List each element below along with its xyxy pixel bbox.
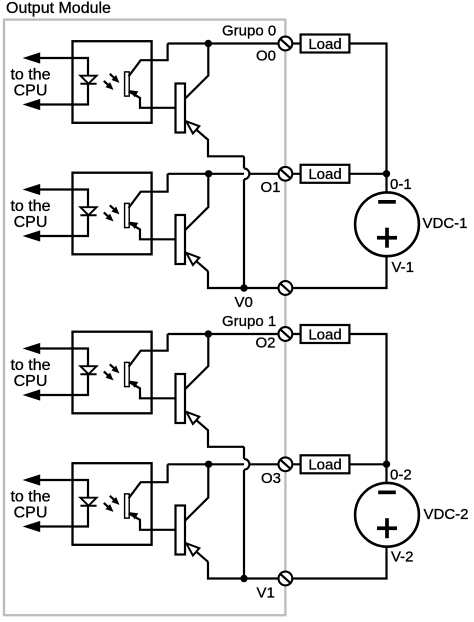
phototransistor Q1a emitter [129, 91, 177, 108]
junction [205, 170, 212, 177]
terminal O2 [279, 327, 293, 341]
phototransistor Q4a emitter arrow [129, 512, 138, 519]
module border (PLC output module outline) [4, 20, 285, 616]
light arrows (D2 to phototransistor) [110, 205, 117, 212]
transistor Q3b emitter arrow (PNP) [186, 412, 199, 424]
wire [87, 84, 89, 106]
svg-text:Grupo 0: Grupo 0 [222, 23, 276, 40]
svg-text:Output Module: Output Module [6, 0, 111, 17]
LED D1 [80, 76, 96, 84]
wire [39, 188, 89, 190]
terminal O3 [279, 457, 293, 471]
phototransistor Q1a base bar [125, 72, 130, 96]
phototransistor Q1a emitter arrow [129, 90, 138, 97]
svg-text:VDC-1: VDC-1 [423, 215, 468, 232]
wire [87, 215, 89, 237]
wire (emitter to common) [207, 271, 209, 289]
phototransistor Q2a collector [129, 192, 169, 208]
svg-text:to the: to the [10, 67, 50, 84]
wire (emitter drop upper) [243, 156, 245, 168]
node 0-1 [383, 170, 390, 177]
junction [205, 330, 212, 337]
wire [39, 394, 89, 396]
svg-text:Grupo 1: Grupo 1 [222, 313, 276, 330]
phototransistor Q3a emitter arrow [129, 381, 138, 388]
svg-text:to the: to the [10, 489, 50, 506]
load L3 box [301, 325, 350, 343]
transistor Q2b emitter wire [187, 253, 208, 271]
svg-text:V-2: V-2 [391, 549, 414, 566]
arrow to CPU (U4 cathode side) [23, 521, 41, 532]
transistor Q2b collector [185, 174, 209, 231]
svg-text:V1: V1 [257, 585, 275, 602]
svg-text:Load: Load [308, 36, 341, 53]
phototransistor Q1a collector [129, 60, 169, 76]
wire hop over O3 line [244, 459, 249, 470]
svg-text:CPU: CPU [14, 504, 48, 521]
svg-text:CPU: CPU [14, 214, 48, 231]
phototransistor Q2a base bar [125, 203, 130, 227]
transistor Q4b base bar [176, 506, 186, 555]
arrow to CPU (U1 anode side) [23, 52, 41, 63]
wire [39, 525, 89, 527]
wire hop over O1 line [244, 168, 249, 179]
wire [87, 189, 89, 209]
wire (emitter drop upper) [243, 447, 245, 459]
LED D4 [80, 498, 96, 506]
arrow to CPU (U4 anode side) [23, 474, 41, 485]
transistor Q4b collector [185, 464, 209, 521]
wire (bus) [385, 334, 387, 464]
wire [349, 173, 387, 175]
light arrows (D4 to phototransistor) [110, 496, 117, 503]
transistor Q4b emitter wire [187, 544, 208, 562]
wire (bus) [385, 44, 387, 174]
phototransistor Q3a base bar [125, 362, 130, 386]
transistor Q2b emitter arrow (PNP) [186, 253, 199, 265]
wire [349, 42, 387, 44]
transistor Q3b collector [185, 334, 209, 390]
wire [39, 235, 89, 237]
junction [240, 575, 247, 582]
source VDC-2 [355, 483, 419, 547]
phototransistor Q2a emitter [129, 223, 177, 240]
svg-text:O3: O3 [261, 470, 281, 487]
light arrows (D1 to phototransistor) [110, 74, 117, 81]
svg-text:O1: O1 [261, 179, 281, 196]
svg-text:O0: O0 [256, 48, 276, 65]
wire (collector riser) [167, 464, 169, 482]
wire [39, 347, 89, 349]
terminal O0 [279, 37, 293, 51]
svg-text:CPU: CPU [14, 82, 48, 99]
wire [87, 57, 89, 77]
node O0 line [168, 42, 302, 44]
phototransistor Q4a collector [129, 482, 169, 498]
svg-text:O2: O2 [256, 335, 276, 352]
wire [39, 479, 89, 481]
node V1 line [207, 577, 388, 579]
wire [349, 333, 387, 335]
junction [205, 461, 212, 468]
phototransistor Q4a emitter [129, 513, 177, 530]
arrow to CPU (U3 anode side) [23, 343, 41, 354]
svg-text:0-2: 0-2 [390, 467, 412, 484]
svg-text:V-1: V-1 [392, 259, 415, 276]
svg-text:Load: Load [308, 326, 341, 343]
wire (emitter drop lower) [243, 470, 245, 580]
source VDC-1 [355, 192, 419, 256]
svg-text:V0: V0 [235, 294, 253, 311]
svg-text:to the: to the [10, 198, 50, 215]
wire (collector riser) [167, 334, 169, 351]
phototransistor Q2a emitter arrow [129, 222, 138, 229]
transistor Q3b base bar [176, 374, 186, 423]
transistor Q1b collector [185, 44, 209, 100]
phototransistor Q3a emitter [129, 382, 177, 399]
junction [205, 40, 212, 47]
node V0 line [207, 287, 388, 289]
LED D2 [80, 207, 96, 215]
arrow to CPU (U2 cathode side) [23, 230, 41, 241]
arrow to CPU (U1 cathode side) [23, 99, 41, 110]
transistor Q3b emitter wire [187, 412, 244, 447]
light arrows (D3 to phototransistor) [110, 364, 117, 371]
junction [240, 284, 247, 291]
node 0-2 [383, 461, 390, 468]
node O2 line [168, 333, 302, 335]
svg-text:Load: Load [308, 166, 341, 183]
arrow to CPU (U3 cathode side) [23, 389, 41, 400]
load L1 box [301, 35, 350, 53]
wire (collector riser) [167, 174, 169, 192]
phototransistor Q3a collector [129, 351, 169, 367]
wire [385, 256, 387, 290]
svg-text:Load: Load [308, 457, 341, 474]
transistor Q1b emitter wire [187, 122, 244, 157]
wire [385, 464, 387, 483]
node O1 line [168, 173, 302, 175]
transistor Q1b base bar [176, 84, 186, 133]
wire [385, 174, 387, 193]
wire [39, 103, 89, 105]
terminal V1 [279, 572, 293, 586]
svg-text:CPU: CPU [14, 373, 48, 390]
optocoupler U2 box [73, 173, 152, 255]
wire [349, 463, 387, 465]
svg-text:0-1: 0-1 [390, 176, 412, 193]
wire [385, 546, 387, 580]
transistor Q2b base bar [176, 215, 186, 264]
wire [87, 479, 89, 499]
phototransistor Q4a base bar [125, 494, 130, 518]
optocoupler U3 box [73, 332, 152, 414]
load L4 box [301, 455, 350, 473]
wire (collector riser) [167, 44, 169, 61]
LED D3 [80, 366, 96, 374]
svg-text:VDC-2: VDC-2 [424, 506, 469, 523]
transistor Q1b emitter arrow (PNP) [186, 121, 199, 133]
wire (emitter drop lower) [243, 179, 245, 289]
terminal V0 [279, 281, 293, 295]
load L2 box [301, 165, 350, 183]
wire [39, 57, 89, 59]
optocoupler U4 box [73, 463, 152, 545]
transistor Q4b emitter arrow (PNP) [186, 543, 199, 555]
wire [87, 374, 89, 396]
svg-text:to the: to the [10, 357, 50, 374]
terminal O1 [279, 167, 293, 181]
wire [87, 348, 89, 368]
node O3 line [168, 463, 302, 465]
arrow to CPU (U2 anode side) [23, 184, 41, 195]
optocoupler U1 box [73, 41, 152, 123]
wire [87, 506, 89, 528]
wire (emitter to common) [207, 562, 209, 580]
